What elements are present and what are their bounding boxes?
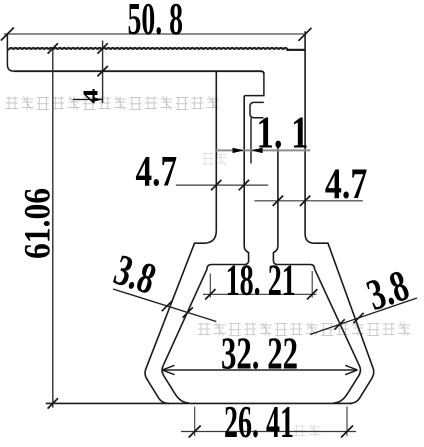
- top flange serrated edge: [9, 48, 305, 50]
- svg-text:18. 21: 18. 21: [226, 256, 296, 305]
- top flange left edge: [7, 35, 13, 71]
- right outer edge, right shoulder, right leg: [305, 31, 374, 403]
- stem2 left edge, channel right wall, cavity top right, inner right slant, inner right leg: [273, 145, 360, 403]
- watermark row3 company name: [198, 323, 410, 336]
- dim 26.41 line: [181, 431, 356, 433]
- dim 32.22 line: [162, 369, 357, 371]
- top flange bottom edge: [14, 71, 264, 74]
- dim 32.22 open arrows: [162, 365, 357, 374]
- dim 4 leader arrow: [73, 99, 103, 101]
- svg-text:26. 41: 26. 41: [224, 397, 294, 447]
- svg-text:1. 1: 1. 1: [257, 107, 309, 158]
- dim 61.06 line: [52, 48, 54, 407]
- hook C feature: [250, 102, 264, 117]
- dim 4.7 left line: [176, 184, 268, 186]
- bottom baseline (profile bottoms + extension line): [46, 402, 352, 404]
- stem1 left edge and left shoulder outer slant and left leg: [145, 72, 216, 404]
- watermark row2 partial: [202, 152, 227, 165]
- svg-text:4.7: 4.7: [136, 149, 178, 196]
- dim 3.8 left leader: [113, 289, 216, 322]
- dim 4.7 right line: [254, 200, 363, 202]
- svg-text:4: 4: [78, 88, 102, 104]
- svg-text:61.06: 61.06: [18, 188, 59, 259]
- dim 50.8 line: [4, 33, 306, 35]
- dim 3.8 right leader: [310, 298, 417, 335]
- svg-text:32. 22: 32. 22: [221, 329, 298, 379]
- inner wall below flange right: [244, 74, 264, 95]
- dim 18.21 extension lines: [210, 271, 312, 298]
- dim 1.1 arrows: [233, 148, 245, 153]
- svg-text:4.7: 4.7: [325, 161, 367, 208]
- stem1 right edge, channel left wall, cavity top left, inner left slant, inner left leg: [162, 96, 249, 403]
- hook tail line: [250, 118, 252, 164]
- watermark row1 company name: [6, 97, 219, 110]
- watermark row4 partial: [294, 425, 321, 437]
- dim 4 line: [102, 41, 104, 104]
- dim 26.41 extension lines: [195, 407, 347, 437]
- dim 18.21 line: [203, 293, 317, 295]
- svg-text:50. 8: 50. 8: [127, 0, 183, 44]
- dim 1.1 line: [216, 149, 310, 151]
